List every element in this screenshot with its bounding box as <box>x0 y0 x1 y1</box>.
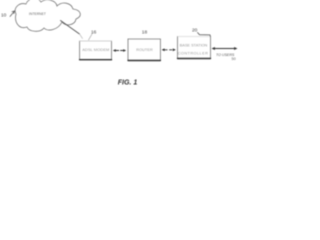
svg-text:CONTROLLER: CONTROLLER <box>178 51 209 56</box>
svg-text:50: 50 <box>232 57 236 61</box>
svg-text:18: 18 <box>142 30 148 36</box>
svg-text:10: 10 <box>1 12 7 18</box>
svg-text:BASE STATION: BASE STATION <box>180 43 208 48</box>
svg-text:ROUTER: ROUTER <box>136 47 153 52</box>
svg-text:ADSL MODEM: ADSL MODEM <box>82 47 109 52</box>
svg-text:FIG. 1: FIG. 1 <box>118 79 138 86</box>
svg-text:INTERNET: INTERNET <box>29 12 46 16</box>
svg-text:16: 16 <box>91 29 97 35</box>
svg-text:20: 20 <box>192 27 198 33</box>
